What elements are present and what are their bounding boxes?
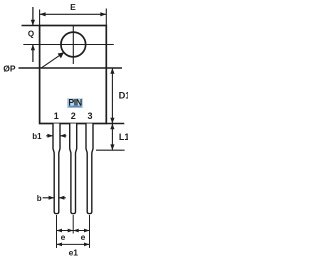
E dimension right arrowhead <box>100 12 106 16</box>
L1 bottom extension line <box>96 149 125 151</box>
lead 1 tip extension line <box>56 215 58 248</box>
svg-text:b1: b1 <box>32 132 42 141</box>
svg-text:L1: L1 <box>119 132 128 142</box>
e dimension arrow between lead 1 and lead 2 <box>57 230 74 232</box>
D1 top arrowhead pointing up <box>110 68 114 74</box>
svg-text:2: 2 <box>71 111 76 121</box>
svg-text:e: e <box>81 232 86 242</box>
PIN underline <box>69 106 82 108</box>
lead 2 tip extension line <box>72 215 74 234</box>
lead 2 outline <box>70 124 77 214</box>
b1 dimension right arrow line <box>60 135 66 137</box>
b dimension right arrow line <box>59 197 66 199</box>
L1 dimension line <box>111 124 113 151</box>
b1 right arrowhead pointing left <box>60 134 66 138</box>
b right arrowhead pointing left <box>59 196 65 200</box>
b1 left arrowhead pointing right <box>47 134 53 138</box>
b dimension left arrow line <box>43 197 54 199</box>
Q dimension upper arrow line <box>32 7 34 26</box>
E dimension left extension line <box>39 10 41 26</box>
bottom edge right extension line <box>106 123 124 125</box>
PIN highlight box <box>67 98 83 108</box>
mounting hole circle <box>61 32 86 57</box>
svg-text:3: 3 <box>87 111 92 121</box>
top edge left extension line for Q dimension <box>22 25 40 27</box>
lead 3 outline <box>86 124 93 214</box>
svg-text:PIN: PIN <box>68 98 82 108</box>
svg-text:Q: Q <box>28 29 34 38</box>
D1 bottom arrowhead pointing down <box>110 118 114 124</box>
svg-text:D1: D1 <box>119 90 128 100</box>
L1 top arrowhead pointing up <box>110 124 114 130</box>
hole vertical centerline <box>72 26 74 64</box>
D1 dimension line <box>111 68 113 124</box>
Q dimension upper arrowhead pointing down <box>31 20 35 26</box>
svg-text:1: 1 <box>54 111 59 121</box>
hole horizontal centerline <box>23 44 114 46</box>
lead 1 outline <box>53 124 60 214</box>
e dimension arrow between lead 2 and lead 3 <box>73 230 89 232</box>
svg-text:E: E <box>70 2 76 12</box>
Q dimension lower arrowhead pointing up <box>31 45 35 51</box>
L1 bottom arrowhead pointing down <box>110 144 114 150</box>
b1 dimension left arrow line <box>46 135 52 137</box>
E dimension left arrowhead <box>40 12 46 16</box>
tab/body separation line with OP leader left part and D1 top extension <box>19 67 123 69</box>
svg-text:b: b <box>37 194 42 203</box>
svg-text:e1: e1 <box>69 248 79 258</box>
OP leader diagonal <box>42 52 64 67</box>
lead 3 tip extension line <box>89 215 91 248</box>
e1 dimension arrow between lead 1 and lead 3 <box>57 243 90 245</box>
svg-text:e: e <box>61 232 66 242</box>
Q dimension lower arrow line <box>32 45 34 63</box>
OP leader arrowhead at hole edge <box>58 52 64 58</box>
E dimension right extension line <box>105 9 107 26</box>
package body outline <box>40 26 107 124</box>
E dimension line <box>40 13 107 15</box>
b left arrowhead pointing right <box>49 196 55 200</box>
svg-text:ØP: ØP <box>3 64 16 74</box>
